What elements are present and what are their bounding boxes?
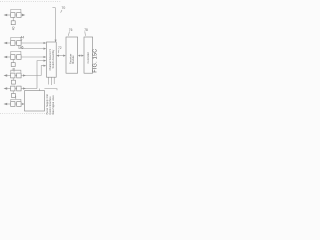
wire (15, 14, 17, 16)
antenna unit U3 (84, 37, 93, 73)
flow arrow (23, 74, 26, 76)
feed arrowhead (55, 40, 57, 42)
top dashed border (0, 1, 61, 3)
filter F5a (11, 86, 15, 91)
svg-text:72: 72 (58, 46, 62, 50)
right port arrow (22, 14, 25, 17)
filter F3a (11, 55, 15, 60)
switch assembly U1 (46, 42, 56, 77)
svg-text:78: 78 (84, 28, 88, 32)
svg-text:FIG. 15C: FIG. 15C (93, 49, 98, 73)
wire (7, 14, 11, 16)
flow arrow (23, 87, 26, 89)
wire (15, 42, 17, 44)
filter F4a (11, 73, 15, 78)
wire (7, 75, 11, 77)
wire (15, 75, 17, 77)
sensor box (11, 63, 15, 67)
svg-text:Switch Assembly: Switch Assembly (52, 49, 55, 69)
filter F5b (17, 86, 21, 91)
wire (7, 56, 11, 58)
bottom dashed border (0, 113, 54, 115)
arrow into switch (44, 48, 47, 50)
left port arrow (4, 14, 8, 17)
wire (7, 42, 11, 44)
filter F2b (17, 41, 21, 46)
left port arrow (4, 56, 8, 59)
drop wire to controller (39, 89, 41, 91)
row 1: duplexer filter unit, y=15 (4, 9, 26, 30)
port label bus top (44, 89, 57, 91)
sensor box (11, 21, 15, 25)
leader (20, 39, 23, 41)
svg-text:Controller: Controller (86, 52, 90, 63)
bypass bracket (11, 9, 21, 12)
bypass bracket (11, 70, 21, 73)
tap wire down (19, 45, 44, 48)
riser wire (41, 66, 44, 76)
U1 output wires (48, 77, 50, 84)
bidirectional link U1 to U2 (57, 55, 65, 57)
wire (7, 103, 11, 105)
left port arrow (4, 87, 8, 90)
svg-text:44: 44 (21, 36, 25, 40)
row 3: filter unit, y=57 (4, 51, 47, 71)
riser wire (37, 61, 44, 89)
filter F3b (17, 55, 21, 60)
bypass bracket (11, 37, 21, 40)
filter F1b (17, 13, 21, 18)
antenna feed line from top (55, 8, 57, 42)
bypass bracket (11, 99, 21, 101)
arrow into switch (44, 65, 47, 67)
wire to switch (21, 56, 44, 58)
feed bend (52, 7, 55, 9)
controller box (25, 91, 45, 111)
sensor box (11, 80, 15, 84)
wire (15, 56, 17, 58)
wire down (12, 59, 14, 62)
leader (68, 31, 69, 35)
wire (21, 14, 22, 16)
filter F6a (11, 102, 15, 107)
wire down (12, 78, 14, 80)
svg-text:48: 48 (12, 68, 16, 72)
row 2: filter unit with two outputs, y=43 (4, 36, 47, 50)
filter F1a (11, 13, 15, 18)
svg-text:40: 40 (12, 26, 16, 30)
wire down (12, 17, 14, 20)
stub up (15, 96, 17, 100)
wire to switch (21, 42, 44, 44)
wire (21, 88, 37, 90)
svg-text:Data Signal Lines: Data Signal Lines (52, 94, 55, 114)
wire (15, 88, 17, 90)
wire (15, 103, 17, 105)
row 6: filter unit, y=103.5 (4, 96, 25, 107)
left port arrow (4, 103, 8, 106)
filter F4b (17, 73, 21, 78)
svg-text:46: 46 (20, 45, 24, 49)
arrow into switch (44, 56, 47, 58)
wire (21, 75, 41, 77)
svg-text:70: 70 (62, 6, 66, 10)
bidirectional link U2 to U3 (79, 55, 83, 57)
arrow into switch (44, 60, 47, 62)
arrow into controller (22, 103, 24, 105)
left port arrow (4, 42, 8, 45)
svg-text:Module: Module (71, 55, 75, 64)
leader (84, 31, 87, 35)
left port arrow (4, 74, 8, 77)
bypass bracket (11, 51, 21, 54)
transceiver U2 (66, 37, 78, 73)
wire (7, 88, 11, 90)
sensor box (11, 94, 15, 98)
filter F2a (11, 41, 15, 46)
filter F6b (17, 102, 21, 107)
leader (61, 10, 62, 13)
wire down (12, 91, 14, 94)
row 4: filter unit, y=75.5 (4, 65, 47, 85)
leader (57, 50, 60, 54)
arrow into switch (44, 42, 47, 44)
wire into controller (21, 103, 22, 105)
row 5: filter unit, y=88.5 (4, 60, 47, 98)
